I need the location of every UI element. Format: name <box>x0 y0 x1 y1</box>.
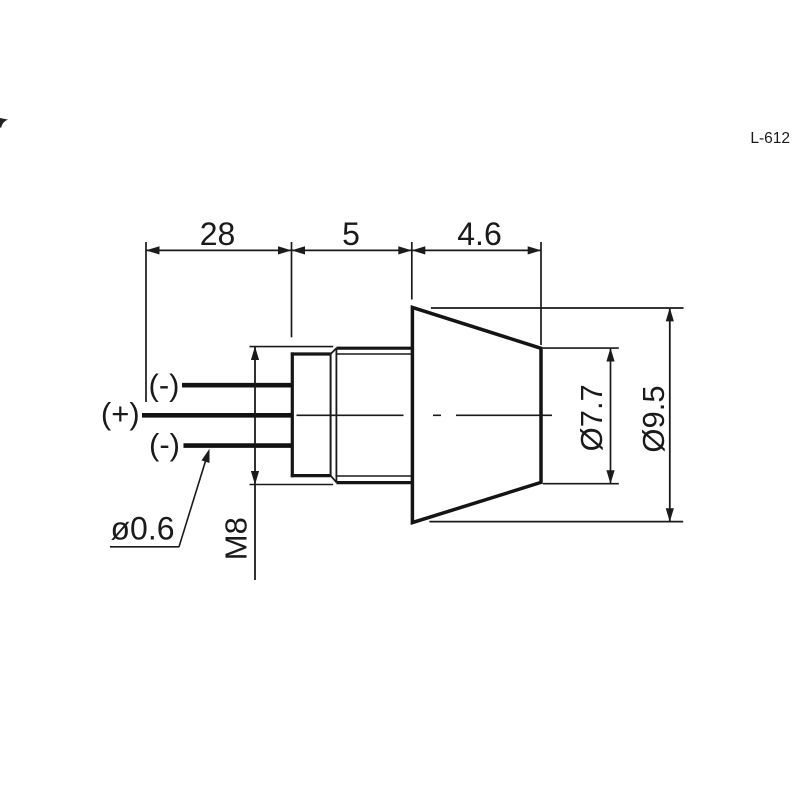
svg-text:(+): (+) <box>101 396 140 431</box>
svg-text:Ø7.7: Ø7.7 <box>574 384 609 451</box>
svg-text:(-): (-) <box>149 367 180 402</box>
svg-text:L-612: L-612 <box>750 130 790 147</box>
svg-text:ø0.6: ø0.6 <box>111 511 175 547</box>
svg-text:M8: M8 <box>219 517 254 560</box>
svg-text:5: 5 <box>342 216 360 252</box>
svg-text:(-): (-) <box>149 427 180 462</box>
svg-text:Ø9.5: Ø9.5 <box>636 385 671 452</box>
svg-text:4.6: 4.6 <box>457 216 501 252</box>
svg-text:28: 28 <box>200 216 236 252</box>
